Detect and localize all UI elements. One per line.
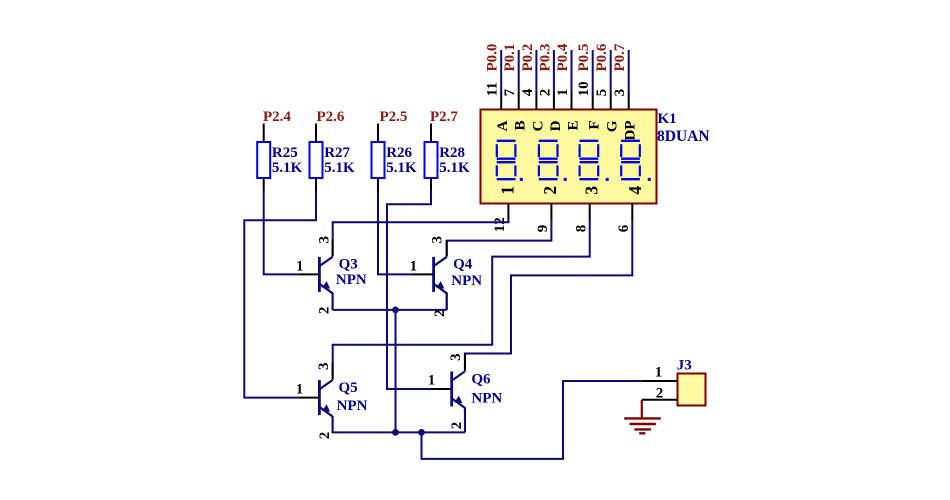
junction lower emitter row right [418,429,425,436]
resistor R28 [425,124,438,192]
wire net P0.0 [500,50,502,92]
svg-text:12: 12 [492,217,508,232]
transistor Q6 [431,354,465,425]
svg-text:NPN: NPN [337,398,368,414]
svg-text:P2.6: P2.6 [317,109,345,125]
svg-text:5.1K: 5.1K [272,160,303,176]
wire net P0.7 [628,50,630,92]
wire Q3 emitter drop [332,293,334,310]
junction upper emitter row [392,307,399,314]
svg-text:P0.0: P0.0 [485,44,501,72]
svg-text:3: 3 [612,89,628,97]
svg-text:P2.4: P2.4 [263,109,291,125]
svg-text:P2.7: P2.7 [430,109,458,125]
svg-text:NPN: NPN [336,272,367,288]
svg-text:DP: DP [623,121,639,141]
svg-text:D: D [548,120,564,131]
svg-text:R26: R26 [386,145,412,161]
svg-text:2: 2 [540,186,560,195]
svg-text:5.1K: 5.1K [324,160,355,176]
wire net P0.2 [535,50,537,92]
svg-text:2: 2 [317,307,333,315]
svg-text:NPN: NPN [471,391,502,407]
svg-text:5.1K: 5.1K [439,160,470,176]
svg-text:F: F [587,121,603,130]
connector J3 [678,374,706,406]
pin 6 of K1 (digit 4 common) [631,204,633,221]
svg-text:R28: R28 [439,145,465,161]
svg-text:G: G [605,120,621,132]
wire Q5 emitter drop [332,416,334,432]
svg-text:1: 1 [296,259,304,275]
pin 10 of K1 (P0.5) [592,92,594,110]
wire center vertical to lower emitter row [395,310,397,433]
svg-text:C: C [530,121,546,132]
svg-text:3: 3 [317,236,333,244]
7-segment digit 3 graphic [580,141,609,181]
svg-text:Q5: Q5 [339,380,358,396]
pin 7 of K1 (P0.1) [518,92,520,110]
svg-text:P2.5: P2.5 [380,109,408,125]
svg-text:8DUAN: 8DUAN [657,128,710,145]
svg-text:P0.5: P0.5 [576,44,592,72]
svg-text:8: 8 [573,225,589,233]
svg-text:P0.6: P0.6 [594,43,610,71]
svg-text:4: 4 [520,88,536,96]
resistor R25 [257,124,270,192]
pin 1 of K1 (P0.4) [571,92,573,110]
svg-text:B: B [513,121,529,131]
svg-text:1: 1 [428,373,436,389]
svg-text:3: 3 [429,236,445,244]
svg-text:P0.7: P0.7 [612,43,628,71]
svg-text:R27: R27 [324,145,350,161]
svg-text:5.1K: 5.1K [386,160,417,176]
svg-text:2: 2 [317,432,333,440]
svg-text:2: 2 [537,89,553,97]
pin 3 of K1 (P0.7) [628,92,630,110]
resistor R27 [310,124,323,192]
wire net P0.4 [571,50,573,92]
svg-text:2: 2 [449,422,465,430]
svg-text:P0.3: P0.3 [537,44,553,72]
pin 4 of K1 (P0.2) [535,92,537,110]
svg-text:11: 11 [485,82,501,96]
wire net P0.3 [553,50,555,92]
svg-text:3: 3 [448,353,464,361]
svg-text:9: 9 [535,225,551,233]
pin 12 of K1 (digit 1 common) [507,204,509,221]
pin 2 of K1 (P0.3) [553,92,555,110]
svg-text:R25: R25 [272,145,298,161]
wire R26 to Q4 base [378,191,414,274]
wire R27 to Q5 base [244,191,316,398]
wire K1 pin 8 to Q5 collector [333,218,590,379]
svg-text:1: 1 [410,259,418,275]
svg-text:6: 6 [616,224,632,232]
7-segment digit 1 graphic [497,141,523,181]
svg-text:P0.4: P0.4 [555,43,571,71]
pin 2 of J3 [642,399,678,401]
svg-text:A: A [495,120,511,131]
svg-text:P0.2: P0.2 [520,44,536,72]
svg-text:7: 7 [502,88,518,96]
svg-text:1: 1 [555,89,571,97]
pin 9 of K1 (digit 2 common) [550,204,552,221]
wire Q6 emitter drop [464,407,466,432]
wire K1 pin 9 to Q4 collector [447,218,552,256]
svg-text:3: 3 [316,363,332,371]
svg-text:Q6: Q6 [471,372,491,388]
wire R28 to Q6 base [387,191,432,389]
svg-text:J3: J3 [677,358,692,374]
wire emitters to J3 pin 1 [422,381,645,459]
pin 1 of J3 [643,380,678,382]
ground [624,400,661,434]
pin 8 of K1 (digit 3 common) [589,204,591,221]
transistor Q3 [299,239,333,310]
wire net P0.5 [592,50,594,92]
svg-text:NPN: NPN [451,273,482,289]
svg-text:Q3: Q3 [339,257,358,273]
display K1 8DUAN [481,110,657,204]
wire Q3 emitter to Q4 emitter (node row) [333,309,447,311]
svg-text:P0.1: P0.1 [502,44,518,72]
pin 11 of K1 (P0.0) [500,92,502,110]
svg-text:2: 2 [656,386,664,402]
svg-text:1: 1 [497,186,517,195]
svg-text:Q4: Q4 [453,257,473,273]
wire net P0.6 [610,50,612,92]
svg-text:4: 4 [625,186,645,195]
7-segment digit 2 graphic [539,141,567,181]
7-segment digit 4 graphic [621,141,651,181]
wire Q4 emitter drop [446,293,448,310]
svg-text:E: E [566,121,582,131]
transistor Q4 [413,241,447,310]
svg-text:3: 3 [581,186,601,195]
svg-text:K1: K1 [658,111,677,127]
wire Q5 emitter to Q6 emitter (node row) [333,431,465,433]
wire K1 pin 12 to Q3 collector [333,218,509,256]
transistor Q5 [299,362,333,433]
svg-text:1: 1 [655,365,663,381]
wire R25 to Q3 base [264,191,300,274]
svg-text:1: 1 [296,382,304,398]
resistor R26 [372,124,385,192]
svg-text:5: 5 [594,89,610,97]
wire net P0.1 [518,50,520,92]
pin 5 of K1 (P0.6) [610,92,612,110]
wire K1 pin 6 to Q6 collector [465,218,632,371]
svg-text:10: 10 [576,81,592,96]
junction lower emitter row left [392,429,399,436]
